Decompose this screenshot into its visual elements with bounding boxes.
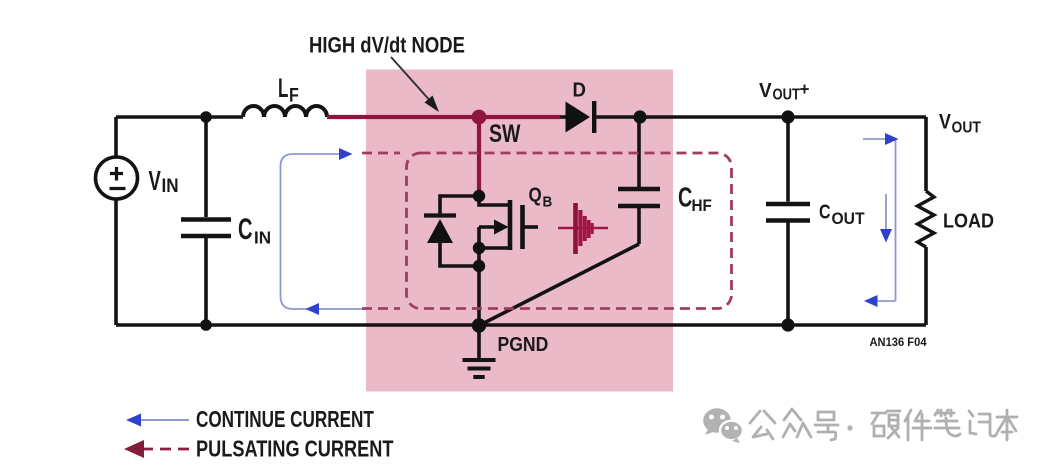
svg-text:V: V bbox=[759, 80, 772, 103]
svg-text:B: B bbox=[543, 194, 553, 211]
svg-text:D: D bbox=[573, 80, 586, 102]
svg-text:OUT: OUT bbox=[773, 87, 801, 104]
svg-text:SW: SW bbox=[489, 120, 521, 148]
svg-text:PULSATING CURRENT: PULSATING CURRENT bbox=[196, 437, 394, 463]
svg-text:OUT: OUT bbox=[832, 210, 865, 228]
svg-text:HIGH dV/dt NODE: HIGH dV/dt NODE bbox=[309, 34, 465, 58]
svg-text:PGND: PGND bbox=[498, 333, 549, 355]
svg-text:AN136 F04: AN136 F04 bbox=[870, 337, 928, 349]
svg-text:C: C bbox=[238, 213, 253, 246]
svg-text:L: L bbox=[278, 73, 289, 103]
svg-text:V: V bbox=[939, 110, 951, 134]
svg-text:Q: Q bbox=[529, 183, 542, 206]
svg-text:C: C bbox=[678, 182, 692, 213]
svg-text:LOAD: LOAD bbox=[943, 211, 994, 233]
svg-text:+: + bbox=[800, 79, 810, 100]
svg-text:C: C bbox=[819, 201, 831, 223]
svg-text:HF: HF bbox=[692, 196, 712, 215]
svg-text:IN: IN bbox=[162, 175, 179, 196]
svg-text:CONTINUE CURRENT: CONTINUE CURRENT bbox=[196, 408, 374, 433]
svg-text:V: V bbox=[149, 166, 161, 197]
svg-text:IN: IN bbox=[254, 227, 271, 248]
svg-text:F: F bbox=[289, 84, 299, 106]
svg-text:OUT: OUT bbox=[952, 119, 981, 137]
